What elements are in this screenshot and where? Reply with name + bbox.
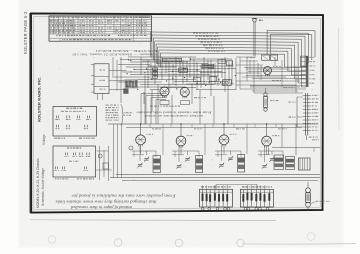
svg-text:KOLSTER PAGE 5-3: KOLSTER PAGE 5-3 (23, 11, 28, 54)
svg-text:Voltage: Voltage (42, 134, 46, 145)
svg-text:that changed turning they now: that changed turning they now more obtai… (55, 199, 157, 203)
svg-text:socket connections as noted: socket connections as noted (144, 114, 203, 117)
svg-text:Schematic — Models K20-21 chas: Schematic — Models K20-21 chassis. Volt … (72, 53, 158, 57)
svg-text:KOLSTER RADIO, INC.: KOLSTER RADIO, INC. (37, 77, 42, 122)
svg-text:instead of paper in their cons: instead of paper in their consulted (71, 205, 132, 209)
svg-text:MODEL K-20, K-21, K-25 Chassis: MODEL K-20, K-21, K-25 Chassis (36, 158, 40, 208)
svg-text:KOLSTER—Models K20-21: KOLSTER—Models K20-21 (95, 49, 158, 53)
svg-text:From possible wire runs the mu: From possible wire runs the multilines i… (71, 193, 177, 197)
svg-text:Schematic, Socket Voltage: Schematic, Socket Voltage (41, 168, 45, 206)
svg-text:Four tube chassis is used with: Four tube chassis is used with the tube (135, 111, 211, 115)
